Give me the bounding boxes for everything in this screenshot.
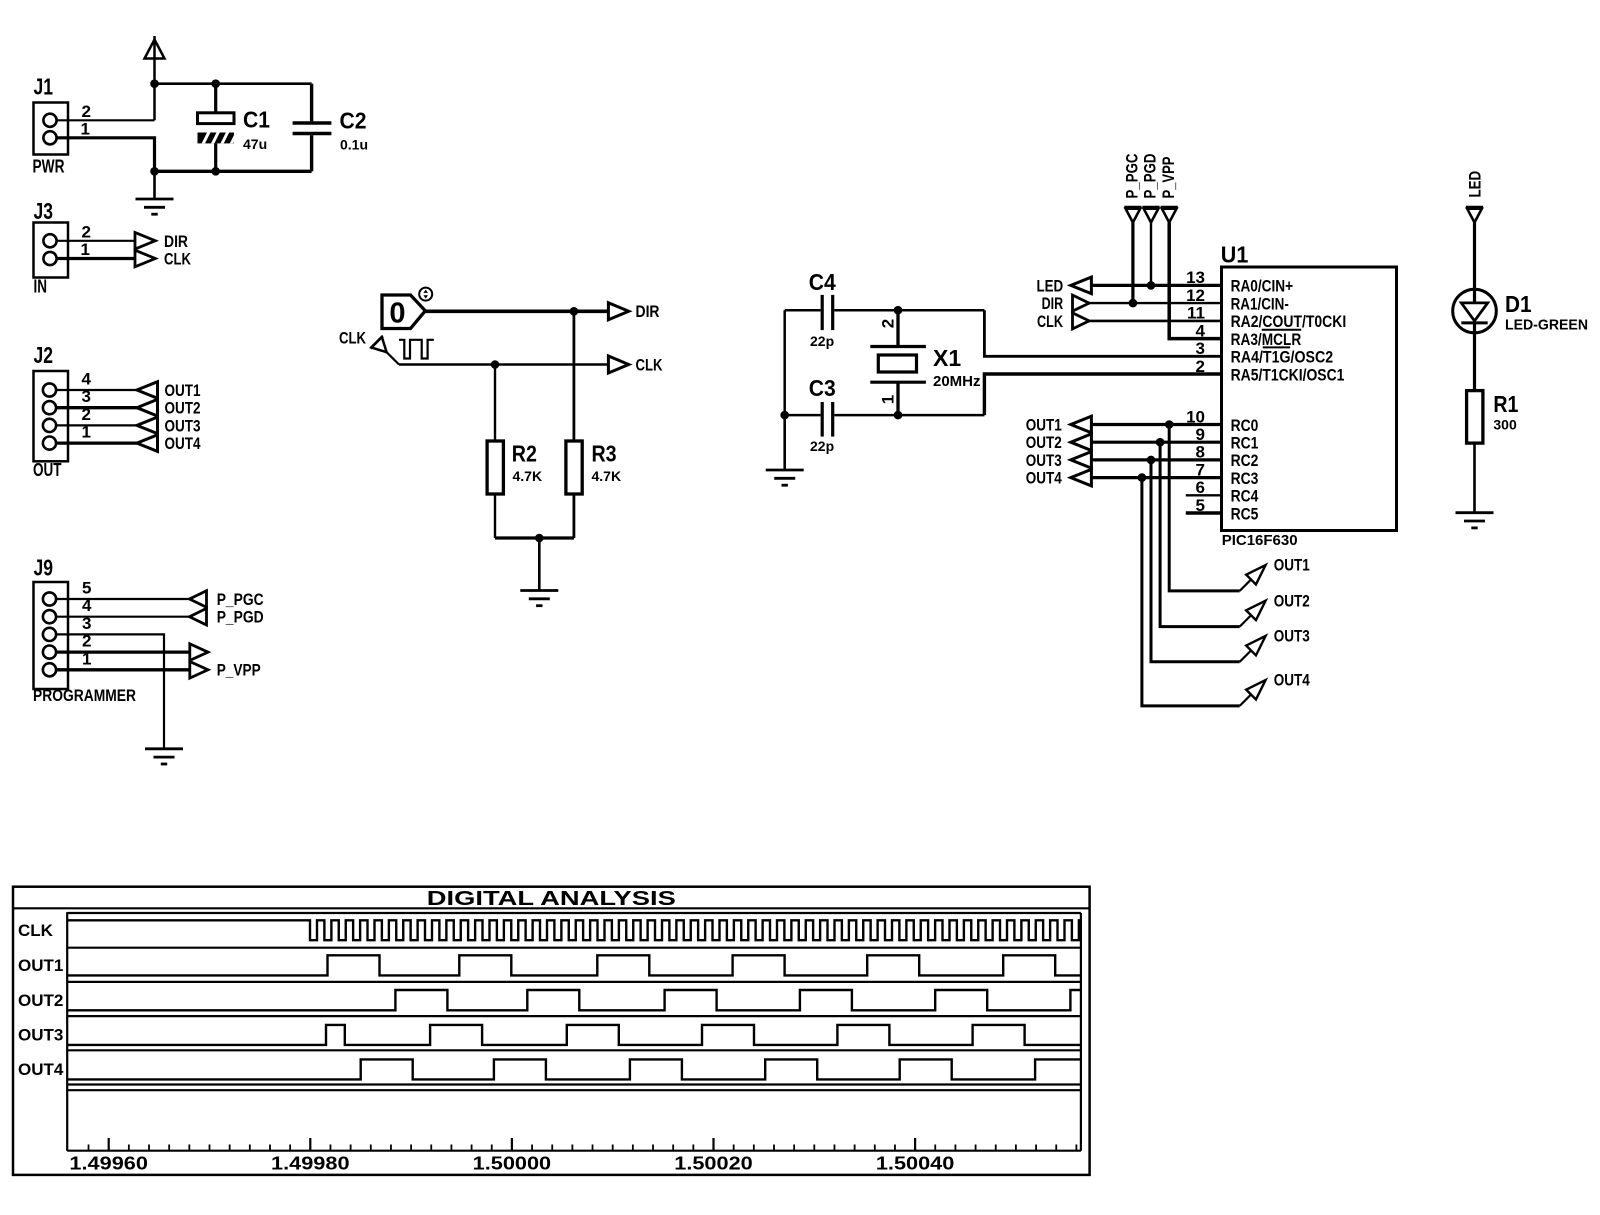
svg-text:R2: R2: [512, 441, 537, 467]
svg-text:RC4: RC4: [1231, 487, 1259, 506]
svg-text:J3: J3: [34, 198, 54, 224]
wire D1 to R1: [1473, 323, 1476, 391]
connector J3: [34, 223, 69, 278]
svg-text:3: 3: [82, 387, 91, 406]
connector J9: [34, 582, 69, 689]
ground G9: [145, 747, 183, 750]
terminal arrow DIR output: [608, 303, 628, 320]
digital analysis frame: [13, 887, 1090, 1175]
axis major tick 1.49980: [309, 1138, 311, 1151]
wire J2 pin 3 OUT2: [56, 406, 138, 409]
wire resistor ground rail: [495, 536, 574, 539]
svg-text:IN: IN: [34, 277, 48, 297]
svg-text:J1: J1: [34, 74, 54, 100]
svg-text:1.50020: 1.50020: [674, 1154, 753, 1174]
svg-text:DIGITAL ANALYSIS: DIGITAL ANALYSIS: [427, 888, 676, 910]
overline MCLR: [1262, 329, 1302, 331]
svg-text:300: 300: [1493, 417, 1517, 433]
svg-text:LED: LED: [1037, 276, 1064, 295]
svg-text:LED: LED: [1466, 171, 1485, 198]
plot left axis: [66, 912, 68, 1150]
svg-text:OUT4: OUT4: [1026, 469, 1062, 488]
junction OUT3: [1147, 456, 1156, 465]
wire J1 pin2 to VCC stem: [57, 119, 155, 121]
ground G2: [520, 589, 558, 592]
terminal arrow CLK to pin11: [1073, 313, 1090, 329]
logic state probe (0): [382, 295, 425, 329]
axis major tick 1.50040: [914, 1138, 916, 1151]
svg-text:DIR: DIR: [164, 232, 188, 251]
row separator below OUT2: [67, 1015, 1081, 1017]
terminal arrow CLK output: [608, 356, 628, 373]
wire J3 pin2 DIR: [57, 240, 135, 242]
wire P_VPP to pin4: [1169, 223, 1221, 339]
wire crystal right rail bottom: [984, 374, 1221, 415]
svg-text:OUT2: OUT2: [1026, 433, 1062, 452]
svg-text:D1: D1: [1505, 291, 1532, 317]
wire P_PGC to pin12: [1131, 223, 1134, 304]
J1 pin circle 2: [43, 114, 56, 127]
svg-text:P_PGD: P_PGD: [217, 608, 264, 627]
IC U1 body: [1222, 267, 1397, 531]
wire CLK to R2: [494, 365, 496, 442]
wire crystal left rail: [783, 310, 786, 415]
J1 pin circle 1: [43, 131, 56, 144]
terminal arrow DIR to pin12: [1073, 295, 1090, 311]
svg-text:P_VPP: P_VPP: [1159, 157, 1178, 199]
svg-text:RA1/CIN-: RA1/CIN-: [1231, 294, 1289, 313]
probe toggle button: [419, 288, 432, 301]
svg-text:P_PGD: P_PGD: [1141, 154, 1160, 199]
terminal arrow OUT1 (diagonal): [1240, 565, 1266, 591]
svg-text:PIC16F630: PIC16F630: [1222, 532, 1298, 549]
svg-text:2: 2: [878, 319, 897, 328]
svg-text:OUT2: OUT2: [18, 991, 63, 1010]
J2 pin circle 4: [43, 383, 56, 396]
row separator below OUT3: [67, 1049, 1081, 1051]
ground G3: [766, 469, 804, 472]
plot top border: [67, 912, 1081, 914]
extra separator below OUT4: [67, 1089, 1081, 1091]
axis major tick 1.50000: [511, 1138, 513, 1151]
node VCC top rail: [155, 82, 312, 85]
junction OUT1: [1165, 420, 1174, 429]
junction OSC2 node: [894, 306, 903, 315]
x axis: [67, 1150, 1081, 1152]
svg-text:OUT4: OUT4: [165, 434, 201, 453]
axis major tick 1.50020: [712, 1138, 714, 1151]
svg-text:4.7K: 4.7K: [513, 468, 543, 484]
svg-text:LED-GREEN: LED-GREEN: [1505, 317, 1588, 334]
svg-text:OUT2: OUT2: [165, 399, 201, 418]
terminal P_VPP: [1161, 206, 1178, 209]
resistor R3: [566, 441, 582, 494]
svg-text:1.50040: 1.50040: [876, 1154, 955, 1174]
svg-text:22p: 22p: [810, 438, 834, 454]
U1 pin 5 stub RC5: [1186, 511, 1222, 514]
svg-text:47u: 47u: [243, 136, 267, 152]
terminal arrow OUT1 (U1 left): [1071, 416, 1092, 433]
power symbol VCC: [153, 36, 156, 120]
row separator below OUT4: [67, 1083, 1081, 1085]
svg-text:RA5/T1CKI/OSC1: RA5/T1CKI/OSC1: [1231, 365, 1345, 384]
terminal P_PGC: [1124, 206, 1141, 209]
svg-text:RC3: RC3: [1231, 469, 1259, 488]
svg-text:J2: J2: [34, 342, 54, 368]
terminal arrow OUT3 (J2): [137, 417, 158, 434]
svg-text:OUT1: OUT1: [165, 381, 201, 400]
wire J2 pin 4 OUT1: [56, 389, 138, 391]
svg-text:C4: C4: [809, 269, 836, 295]
J2 pin circle 2: [43, 419, 56, 432]
wire OUT4 to RC3: [1091, 476, 1221, 479]
svg-text:22p: 22p: [810, 333, 834, 349]
svg-text:OUT3: OUT3: [1026, 451, 1062, 470]
wire J3 pin1 CLK: [57, 257, 135, 260]
terminal P_PGD: [1142, 206, 1159, 209]
svg-text:P_VPP: P_VPP: [217, 661, 261, 680]
capacitor C3: [821, 402, 824, 437]
terminal arrow OUT4 (J2): [137, 435, 158, 452]
connector J2: [34, 371, 69, 461]
svg-text:1.49960: 1.49960: [69, 1154, 148, 1174]
node DIR junction: [570, 307, 579, 316]
svg-text:5: 5: [82, 579, 91, 598]
svg-text:OUT2: OUT2: [1274, 591, 1310, 610]
junction OSC1 node: [894, 411, 903, 420]
svg-text:1.50000: 1.50000: [473, 1154, 552, 1174]
junction P_PGD/pin13: [1147, 281, 1156, 290]
svg-text:RA2/COUT/T0CKI: RA2/COUT/T0CKI: [1231, 312, 1347, 331]
wire OUT1 to RC0: [1091, 423, 1221, 426]
svg-text:C3: C3: [809, 375, 836, 401]
wire R3 bottom: [573, 494, 576, 538]
terminal arrow OUT2 (J2): [137, 399, 158, 416]
wire DIR to pin12: [1089, 302, 1221, 304]
junction OUT2: [1156, 438, 1165, 447]
wire to ground G3: [783, 415, 786, 470]
crystal X1: [896, 310, 899, 346]
wire OUT2 down: [1160, 442, 1240, 626]
terminal arrow OUT4 (diagonal): [1240, 680, 1266, 706]
J9 pin circle 3: [43, 628, 56, 641]
wire J2 pin 1 OUT4: [56, 441, 138, 444]
svg-text:4.7K: 4.7K: [592, 468, 622, 484]
svg-text:C2: C2: [340, 107, 367, 133]
wire crystal right rail top: [984, 310, 1221, 356]
svg-text:OUT3: OUT3: [165, 416, 201, 435]
wire R1 to ground: [1473, 443, 1476, 513]
wire DIR net from probe: [425, 309, 609, 313]
waveform OUT3: [67, 1025, 1081, 1045]
wire DIR to R3: [573, 311, 576, 441]
wire OSC top rail: [785, 309, 821, 312]
axis major tick 1.49960: [108, 1138, 110, 1151]
svg-text:1: 1: [82, 423, 91, 442]
svg-text:0.1u: 0.1u: [340, 136, 368, 152]
wire OUT4 down: [1142, 478, 1240, 706]
svg-text:CLK: CLK: [164, 250, 192, 269]
U1 pin 6 stub RC4: [1186, 494, 1222, 496]
svg-text:P_PGC: P_PGC: [217, 590, 264, 609]
svg-text:2: 2: [1196, 357, 1205, 376]
terminal arrow P_PGD: [190, 608, 207, 625]
svg-text:RC5: RC5: [1231, 504, 1259, 523]
wire LED terminal to D1: [1473, 223, 1476, 303]
capacitor C1 top plate: [198, 113, 235, 124]
svg-text:RC2: RC2: [1231, 451, 1259, 470]
svg-text:1: 1: [81, 120, 90, 139]
terminal arrow P_VPP pin1: [190, 662, 208, 679]
svg-text:R1: R1: [1493, 391, 1518, 417]
J2 pin circle 3: [43, 401, 56, 414]
terminal arrow P_VPP pin2: [190, 644, 208, 661]
svg-text:20MHz: 20MHz: [933, 373, 981, 390]
svg-text:OUT1: OUT1: [1274, 556, 1310, 575]
svg-text:U1: U1: [1221, 242, 1249, 268]
terminal arrow OUT1 (J2): [137, 382, 158, 399]
svg-text:J9: J9: [34, 555, 54, 581]
wire J1 pin1 to ground rail: [57, 138, 155, 172]
J3 pin circle 2: [43, 234, 56, 247]
wire R2 bottom: [494, 494, 496, 538]
junction OSC1/ground rail: [780, 411, 789, 420]
axis minor ticks: [89, 1145, 1077, 1151]
svg-text:1: 1: [878, 395, 897, 404]
waveform OUT1: [67, 955, 1081, 975]
svg-text:RC0: RC0: [1231, 416, 1259, 435]
ground rail bottom J1: [155, 170, 312, 173]
ground G1: [136, 198, 174, 201]
J3 pin circle 1: [43, 252, 56, 265]
wire J2 pin 2 OUT3: [56, 424, 138, 426]
wire CLK net: [399, 363, 609, 365]
wire J9 pin3 to ground: [56, 634, 164, 748]
capacitor C4: [821, 295, 824, 330]
overline T1G: [1263, 346, 1290, 348]
terminal arrow OUT3 (diagonal): [1240, 636, 1266, 662]
waveform CLK: [67, 920, 1081, 940]
J9 pin circle 2: [43, 646, 56, 659]
svg-text:2: 2: [82, 102, 91, 121]
wire J9 pin2 P_VPP: [56, 650, 190, 653]
junction GND/C1: [211, 167, 220, 176]
waveform OUT2: [67, 990, 1081, 1010]
terminal LED (top): [1466, 206, 1483, 209]
svg-text:OUT3: OUT3: [18, 1026, 63, 1045]
svg-text:OUT4: OUT4: [18, 1060, 64, 1079]
junction resistor ground rail: [535, 534, 544, 543]
wire to ground G2: [538, 538, 541, 591]
svg-text:DIR: DIR: [1042, 294, 1064, 313]
wire OUT3 to RC2: [1091, 458, 1221, 461]
terminal arrow DIR (J3): [135, 233, 155, 250]
terminal arrow OUT2 (U1 left): [1071, 434, 1092, 451]
capacitor C2: [310, 84, 313, 122]
svg-text:OUT4: OUT4: [1274, 671, 1310, 690]
J9 pin circle 1: [43, 663, 56, 676]
svg-text:DIR: DIR: [636, 302, 660, 321]
J9 pin circle 4: [43, 610, 56, 623]
capacitor C1 bottom plate (polarized, hatched): [198, 129, 239, 147]
LED D1: [1453, 289, 1497, 333]
svg-text:RA4/T1G/OSC2: RA4/T1G/OSC2: [1231, 348, 1334, 367]
terminal arrow P_PGC: [190, 591, 207, 608]
wire P_PGD to pin13: [1150, 223, 1152, 286]
svg-text:CLK: CLK: [636, 355, 664, 374]
row separator below CLK: [67, 947, 1081, 949]
ground G4: [1456, 511, 1494, 514]
wire C1 bottom lead: [214, 143, 217, 171]
wire C1 top lead: [214, 84, 217, 113]
junction VCC/C1: [211, 79, 220, 88]
svg-text:2: 2: [82, 223, 91, 242]
svg-text:OUT: OUT: [33, 460, 62, 480]
title separator: [13, 907, 1090, 909]
svg-text:1: 1: [81, 240, 90, 259]
junction P_PGC/pin12: [1129, 299, 1138, 308]
svg-text:CLK: CLK: [18, 921, 54, 940]
wire OUT2 to RC1: [1091, 441, 1221, 444]
svg-text:R3: R3: [592, 441, 617, 467]
svg-text:3: 3: [1196, 339, 1205, 358]
svg-text:CLK: CLK: [1037, 312, 1064, 331]
svg-text:CLK: CLK: [339, 329, 367, 348]
node CLK junction: [491, 360, 500, 369]
svg-text:4: 4: [82, 370, 92, 389]
svg-text:2: 2: [82, 405, 91, 424]
svg-text:PROGRAMMER: PROGRAMMER: [33, 687, 136, 705]
svg-text:PWR: PWR: [33, 157, 65, 177]
svg-text:X1: X1: [933, 345, 961, 371]
clock waveform glyph: [399, 340, 434, 359]
junction OUT4: [1138, 473, 1147, 482]
svg-text:OUT1: OUT1: [18, 956, 63, 975]
wire J9 pin4 P_PGD: [56, 616, 190, 618]
terminal arrow CLK (J3): [135, 250, 155, 267]
row separator below OUT1: [67, 981, 1081, 983]
wire LED to pin13: [1091, 284, 1221, 287]
resistor R2: [487, 441, 503, 494]
terminal arrow OUT2 (diagonal): [1240, 601, 1266, 627]
terminal arrow OUT3 (U1 left): [1071, 452, 1092, 469]
terminal arrow OUT4 (U1 left): [1071, 469, 1092, 486]
resistor R1: [1467, 391, 1483, 444]
junction VCC/stem: [150, 79, 159, 88]
svg-text:0: 0: [389, 298, 405, 330]
J2 pin circle 1: [43, 437, 56, 450]
svg-text:1.49980: 1.49980: [271, 1154, 350, 1174]
svg-text:OUT1: OUT1: [1026, 416, 1062, 435]
junction GND/stem: [150, 167, 159, 176]
J9 pin circle 5: [43, 592, 56, 605]
svg-text:RA3/MCLR: RA3/MCLR: [1231, 330, 1302, 349]
terminal arrow LED: [1071, 277, 1092, 294]
svg-text:C1: C1: [243, 107, 270, 133]
wire OSC bottom rail: [785, 414, 821, 417]
wire J9 pin1 P_VPP: [56, 668, 190, 671]
wire J9 pin5 P_PGC: [56, 598, 190, 600]
wire OUT1 down: [1169, 425, 1240, 591]
wire OUT3 down: [1151, 460, 1240, 662]
wire to ground G1: [153, 171, 156, 199]
svg-text:P_PGC: P_PGC: [1123, 154, 1142, 199]
wire CLK to pin11: [1089, 320, 1221, 323]
plot right axis: [1080, 913, 1082, 1151]
connector J1: [34, 103, 69, 155]
svg-text:RA0/CIN+: RA0/CIN+: [1231, 277, 1294, 296]
svg-text:OUT3: OUT3: [1274, 627, 1310, 646]
svg-text:RC1: RC1: [1231, 434, 1259, 453]
waveform OUT4: [67, 1059, 1081, 1079]
